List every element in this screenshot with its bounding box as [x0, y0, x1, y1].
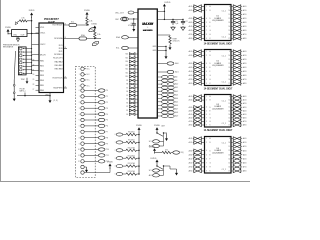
capacitor C1 1uF: [172, 19, 174, 21]
net oval: [98, 107, 105, 110]
svg-text:VDD: VDD: [40, 27, 45, 29]
pin seg R4: [231, 67, 233, 69]
svg-text:S9: S9: [126, 80, 128, 82]
svg-text:PULSE: PULSE: [20, 88, 25, 90]
svg-text:B: B: [210, 10, 211, 12]
wire DGND: [17, 95, 50, 97]
svg-text:R10 47kΩ: R10 47kΩ: [128, 147, 136, 149]
svg-text:S13: S13: [125, 65, 128, 67]
wire: [32, 54, 36, 56]
svg-text:P9: P9: [106, 143, 108, 145]
pin seg R0: [231, 6, 233, 8]
pin J1-6: [20, 65, 22, 67]
node SCL: [86, 24, 87, 25]
pin RB1: [36, 65, 40, 67]
svg-text:H: H: [210, 167, 211, 169]
border frame: [0, 0, 2, 182]
svg-text:5: 5: [79, 120, 80, 122]
svg-text:E: E: [210, 110, 211, 112]
svg-text:RB0: RB0: [40, 61, 44, 63]
svg-text:F: F: [210, 158, 211, 160]
svg-text:F: F: [210, 114, 211, 116]
pin seg R8: [231, 38, 233, 40]
svg-text:R13 47kΩ: R13 47kΩ: [128, 171, 136, 173]
pin seg L8: [193, 124, 194, 126]
svg-text:N.C.: N.C.: [87, 85, 91, 87]
svg-text:E: E: [210, 22, 211, 24]
svg-text:MAXIM: MAXIM: [142, 22, 153, 26]
pin AD0: [157, 63, 167, 65]
svg-text:4: 4: [79, 114, 80, 116]
svg-text:11: 11: [229, 103, 231, 105]
svg-text:S3: S3: [126, 102, 128, 104]
pin DIG9: [157, 108, 161, 110]
ferrite bead FB1: [69, 23, 77, 26]
svg-text:MAX6955: MAX6955: [143, 29, 154, 32]
resistor 47k: [123, 165, 126, 167]
svg-text:12: 12: [228, 18, 230, 20]
pin DIG10: [157, 111, 161, 113]
net oval: [98, 112, 105, 115]
pin ISET: [157, 34, 170, 36]
svg-text:11: 11: [229, 146, 231, 148]
svg-text:33: 33: [33, 60, 35, 62]
svg-text:26: 26: [65, 23, 67, 25]
wire: [24, 93, 26, 96]
net oval: [98, 148, 105, 151]
pin seg R3: [231, 18, 233, 20]
svg-text:DVDD: DVDD: [5, 27, 11, 29]
svg-text:15: 15: [228, 162, 230, 164]
svg-text:16: 16: [228, 121, 230, 123]
svg-text:7: 7: [79, 132, 80, 134]
svg-text:S14: S14: [125, 61, 128, 63]
ground: [176, 169, 178, 173]
svg-text:SCL: SCL: [149, 170, 152, 172]
pin J1-4: [20, 58, 22, 60]
pin seg L4: [193, 110, 194, 112]
pin seg R3: [231, 106, 233, 108]
pin seg L8: [193, 38, 194, 40]
pin RB6: [36, 89, 40, 91]
svg-text:12: 12: [228, 63, 230, 65]
svg-text:P6: P6: [106, 126, 108, 128]
resistor R1 1.3k: [86, 18, 88, 26]
pin seg L3: [193, 106, 194, 108]
pin seg R5: [231, 158, 233, 160]
wire SCL (RC7 to MAX6955): [67, 24, 89, 26]
pin RB5: [36, 84, 40, 86]
pin seg L7: [193, 120, 194, 122]
pin seg R5: [231, 113, 233, 115]
svg-text:RB3: RB3: [40, 75, 44, 77]
svg-text:17: 17: [228, 38, 230, 40]
svg-text:P2: P2: [106, 102, 108, 104]
net oval SCL2: [153, 169, 160, 172]
wire: [31, 17, 33, 21]
svg-text:SCL: SCL: [116, 48, 120, 50]
display DS1 14-segment dual digit: [205, 5, 232, 41]
pin seg L5: [193, 26, 194, 28]
svg-text:F: F: [210, 71, 211, 73]
net oval P15: [116, 149, 123, 152]
power DVDD (pull-up): [30, 13, 33, 16]
svg-text:14: 14: [228, 71, 230, 73]
pin seg R7: [231, 79, 233, 81]
svg-text:LDQ-N3606RI: LDQ-N3606RI: [212, 20, 224, 22]
power DVDD: [93, 26, 96, 29]
svg-text:29: 29: [33, 79, 35, 81]
svg-text:11: 11: [78, 155, 80, 157]
svg-text:SCL: SCL: [149, 141, 152, 143]
pin seg R8: [231, 170, 233, 172]
svg-text:RB5:RB3: RB5:RB3: [55, 69, 63, 71]
svg-text:RE0:RE2: RE0:RE2: [55, 65, 63, 67]
svg-text:P11: P11: [106, 155, 109, 157]
svg-text:P1: P1: [106, 96, 108, 98]
svg-text:OSC_OUT: OSC_OUT: [115, 12, 125, 14]
svg-text:26: 26: [65, 86, 67, 88]
net oval P17: [116, 165, 123, 168]
IC U1 MAXIM MAX6955: [138, 9, 157, 118]
pin J1-7: [20, 69, 22, 71]
svg-text:9: 9: [79, 143, 80, 145]
svg-text:13: 13: [228, 22, 230, 24]
pin DIG1: [157, 80, 161, 82]
svg-text:P0: P0: [106, 90, 108, 92]
resistor R2 1.3k: [94, 31, 96, 39]
svg-text:K: K: [210, 38, 211, 40]
svg-text:S4: S4: [126, 99, 128, 101]
svg-text:P3: P3: [106, 108, 108, 110]
ground: [165, 47, 167, 54]
svg-text:DVDD: DVDD: [107, 161, 113, 163]
power DVDD (switch pull): [156, 127, 159, 130]
switch contact gnd: [81, 165, 84, 168]
svg-text:17: 17: [228, 171, 230, 173]
svg-text:R9 47kΩ: R9 47kΩ: [128, 140, 135, 142]
svg-text:S0: S0: [126, 114, 128, 116]
svg-text:S11: S11: [125, 72, 128, 74]
pin seg R2: [231, 146, 233, 148]
svg-text:B: B: [210, 142, 211, 144]
pin seg R0: [231, 51, 233, 53]
net oval: [98, 89, 105, 92]
wire: [32, 65, 36, 67]
pin seg R8: [231, 83, 233, 85]
ground: [169, 45, 171, 48]
svg-text:1: 1: [79, 96, 80, 98]
svg-text:RB1: RB1: [40, 65, 44, 67]
pin seg R4: [231, 154, 233, 156]
net oval: [98, 95, 105, 98]
svg-text:P10: P10: [106, 149, 109, 151]
node SDA: [94, 38, 95, 39]
net oval: [98, 154, 105, 157]
svg-text:RC2/CCP1: RC2/CCP1: [53, 58, 62, 60]
pin J1-8: [20, 72, 22, 74]
power DVDD: [86, 12, 89, 15]
svg-text:16: 16: [228, 166, 230, 168]
pin seg L6: [193, 75, 194, 77]
pin seg R6: [231, 117, 233, 119]
pin seg R3: [231, 63, 233, 65]
svg-text:DVDD: DVDD: [136, 125, 142, 127]
svg-text:PIC16F877: PIC16F877: [44, 17, 59, 21]
svg-text:S7: S7: [126, 87, 128, 89]
svg-text:CC_1: CC_1: [222, 11, 226, 13]
pin J1-1: [20, 48, 22, 50]
pin seg R0: [231, 138, 233, 140]
pin seg R7: [231, 166, 233, 168]
ground: [133, 26, 135, 29]
net oval P14: [116, 141, 123, 144]
wire: [164, 18, 183, 20]
svg-text:RB5: RB5: [40, 85, 44, 87]
svg-text:47k: 47k: [165, 150, 168, 152]
pin RB2: [36, 70, 40, 72]
svg-text:RC0: RC0: [59, 48, 63, 50]
svg-text:RC6/TX/CK: RC6/TX/CK: [53, 78, 64, 80]
svg-text:(2, 3): (2, 3): [54, 100, 58, 102]
pin RB4: [36, 79, 40, 81]
ground: [182, 26, 184, 27]
pin seg L1: [193, 10, 194, 12]
wire bus: [138, 133, 140, 175]
svg-text:CC_1: CC_1: [222, 56, 226, 58]
net oval: [98, 142, 105, 145]
svg-text:OSC1: OSC1: [40, 33, 45, 35]
svg-text:E: E: [210, 154, 211, 156]
svg-text:R11 47kΩ: R11 47kΩ: [128, 155, 136, 157]
resistor 47k: [123, 134, 126, 136]
pin seg L5: [193, 71, 194, 73]
net oval: [98, 124, 105, 127]
pin OSC1: [36, 32, 40, 34]
pin seg L3: [193, 150, 194, 152]
pin seg R6: [231, 162, 233, 164]
svg-text:P7: P7: [106, 132, 108, 134]
pin MCLR: [36, 54, 40, 56]
pin DIG11: [157, 115, 161, 117]
svg-text:0: 0: [79, 69, 80, 71]
switch contact pwr: [81, 171, 84, 174]
svg-text:17: 17: [228, 83, 230, 85]
svg-text:H: H: [210, 34, 211, 36]
pin seg L1: [193, 55, 194, 57]
pin seg L5: [193, 113, 194, 115]
net oval P16: [116, 157, 123, 160]
svg-text:13: 13: [228, 110, 230, 112]
svg-text:RD0/PSP0: RD0/PSP0: [53, 88, 62, 90]
svg-text:B: B: [210, 55, 211, 57]
svg-text:13: 13: [228, 67, 230, 69]
svg-text:8: 8: [79, 137, 80, 139]
pin seg R3: [231, 150, 233, 152]
svg-text:0: 0: [79, 90, 80, 92]
svg-text:31: 31: [33, 69, 35, 71]
pin seg L8: [193, 83, 194, 85]
pin seg L7: [193, 166, 194, 168]
ferrite bead FB2: [79, 37, 87, 40]
pin DIG6: [157, 97, 161, 99]
svg-text:26: 26: [65, 37, 67, 39]
svg-text:S16: S16: [125, 54, 128, 56]
svg-text:14-SEGMENT DUAL DIGIT: 14-SEGMENT DUAL DIGIT: [204, 42, 233, 45]
power DVDD: [109, 164, 112, 167]
pin seg L4: [193, 154, 194, 156]
resistor 47k: [123, 141, 126, 143]
pin seg L3: [193, 63, 194, 65]
svg-text:3: 3: [79, 108, 80, 110]
svg-text:S10: S10: [125, 76, 128, 78]
display DS3 14-segment dual digit: [205, 95, 232, 128]
pin seg R1: [231, 55, 233, 57]
svg-text:RC5/SDO: RC5/SDO: [54, 54, 63, 56]
svg-text:RC1: RC1: [59, 51, 63, 53]
svg-text:N.C.: N.C.: [87, 74, 91, 76]
svg-text:14: 14: [228, 158, 230, 160]
pin seg L3: [193, 18, 194, 20]
svg-text:1: 1: [79, 74, 80, 76]
svg-text:DVDD: DVDD: [84, 10, 90, 12]
svg-text:C2: C2: [185, 21, 187, 23]
net oval ADD2: [153, 174, 160, 177]
pin seg L0: [193, 6, 194, 8]
pin seg R2: [231, 59, 233, 61]
pin seg R4: [231, 110, 233, 112]
svg-text:27: 27: [33, 89, 35, 91]
pin seg L1: [193, 99, 194, 101]
switch SW-B: [156, 165, 157, 166]
svg-text:S5: S5: [126, 95, 128, 97]
svg-text:14: 14: [228, 114, 230, 116]
pin DIG8: [157, 104, 161, 106]
oscillator module U2: [12, 30, 27, 37]
svg-text:CC_2: CC_2: [222, 82, 226, 84]
pin seg L1: [193, 142, 194, 144]
resistor 47k: [123, 149, 126, 151]
net flag SDA: [92, 40, 100, 46]
svg-text:28: 28: [33, 84, 35, 86]
svg-text:OSC: OSC: [13, 34, 18, 36]
pin RB0: [36, 60, 40, 62]
svg-text:26: 26: [65, 47, 67, 49]
net oval ADD: [153, 144, 160, 147]
svg-text:15: 15: [228, 75, 230, 77]
svg-text:12: 12: [228, 107, 230, 109]
ground (diagonal arrow): [17, 21, 19, 23]
ground: [164, 132, 168, 134]
svg-text:DVDD: DVDD: [151, 158, 157, 160]
net oval: [98, 136, 105, 139]
pin J1-5: [20, 62, 22, 64]
pin J1-3: [20, 55, 22, 57]
pin DIG5: [157, 94, 161, 96]
net oval SEG: [153, 140, 160, 143]
svg-text:S6: S6: [126, 91, 128, 93]
svg-text:16: 16: [228, 79, 230, 81]
pin VDD: [36, 26, 40, 28]
pin RB3: [36, 75, 40, 77]
resistor R4 4.7k: [19, 20, 27, 22]
svg-text:MCLR: MCLR: [40, 54, 46, 56]
pin DIG3: [157, 87, 161, 89]
svg-text:DVDD: DVDD: [91, 23, 97, 25]
wire bus: [31, 34, 33, 74]
svg-text:10: 10: [228, 142, 230, 144]
svg-text:S12: S12: [125, 69, 128, 71]
svg-text:14-SEGMENT DUAL DIGIT: 14-SEGMENT DUAL DIGIT: [204, 87, 233, 90]
resistor 47k: [123, 173, 126, 175]
svg-text:S15: S15: [125, 57, 128, 59]
net oval: [98, 118, 105, 121]
svg-text:14: 14: [228, 26, 230, 28]
wire: [32, 70, 36, 72]
svg-text:RC4/SDA: RC4/SDA: [54, 37, 63, 40]
svg-text:470pF: 470pF: [128, 25, 133, 27]
pin seg L6: [193, 162, 194, 164]
svg-text:H: H: [210, 121, 211, 123]
svg-text:13: 13: [228, 154, 230, 156]
pin OSC2: [36, 44, 40, 46]
svg-text:K: K: [210, 83, 211, 85]
pin seg R2: [231, 14, 233, 16]
svg-text:26: 26: [65, 76, 67, 78]
svg-text:RC3: RC3: [59, 45, 63, 47]
capacitor C2 1uF: [182, 19, 184, 21]
resistor R3 470 1%: [169, 36, 171, 44]
svg-text:14-SEGMENT DUAL DIGIT: 14-SEGMENT DUAL DIGIT: [204, 129, 233, 132]
pin seg L4: [193, 67, 194, 69]
pin seg L8: [193, 170, 194, 172]
svg-text:DVDD: DVDD: [165, 2, 171, 4]
pin DIG4: [157, 90, 161, 92]
pin seg R6: [231, 30, 233, 32]
svg-text:6: 6: [79, 126, 80, 128]
power DVDD (switch B pull): [156, 160, 159, 163]
svg-text:1.3k: 1.3k: [89, 21, 92, 23]
svg-text:DVDD: DVDD: [154, 125, 160, 127]
power DVDD (IRQ pull): [153, 148, 156, 151]
svg-text:K: K: [210, 125, 211, 127]
pin J1-2: [20, 51, 22, 53]
svg-text:11: 11: [229, 59, 231, 61]
svg-text:12: 12: [228, 150, 230, 152]
svg-text:30: 30: [33, 74, 35, 76]
net oval: [98, 101, 105, 104]
svg-text:DVDD: DVDD: [149, 147, 155, 149]
svg-text:R8 47kΩ: R8 47kΩ: [128, 132, 135, 134]
pin seg R7: [231, 34, 233, 36]
pin seg R5: [231, 26, 233, 28]
display DS2 14-segment dual digit: [205, 50, 232, 86]
pin seg R7: [231, 120, 233, 122]
svg-text:CC_1: CC_1: [222, 101, 226, 103]
power DVDD (oscillator supply): [7, 29, 10, 32]
display DS4 14-segment dual digit: [205, 137, 232, 174]
svg-text:SCL: SCL: [71, 21, 75, 23]
resistor 47k: [123, 157, 126, 159]
pin seg R2: [231, 103, 233, 105]
svg-text:P5: P5: [106, 120, 108, 122]
svg-text:K: K: [210, 171, 211, 173]
pin seg R1: [231, 142, 233, 144]
svg-text:12: 12: [78, 161, 80, 163]
switch SW-A: [156, 132, 158, 133]
net oval: [98, 160, 105, 163]
svg-text:10: 10: [78, 149, 80, 151]
